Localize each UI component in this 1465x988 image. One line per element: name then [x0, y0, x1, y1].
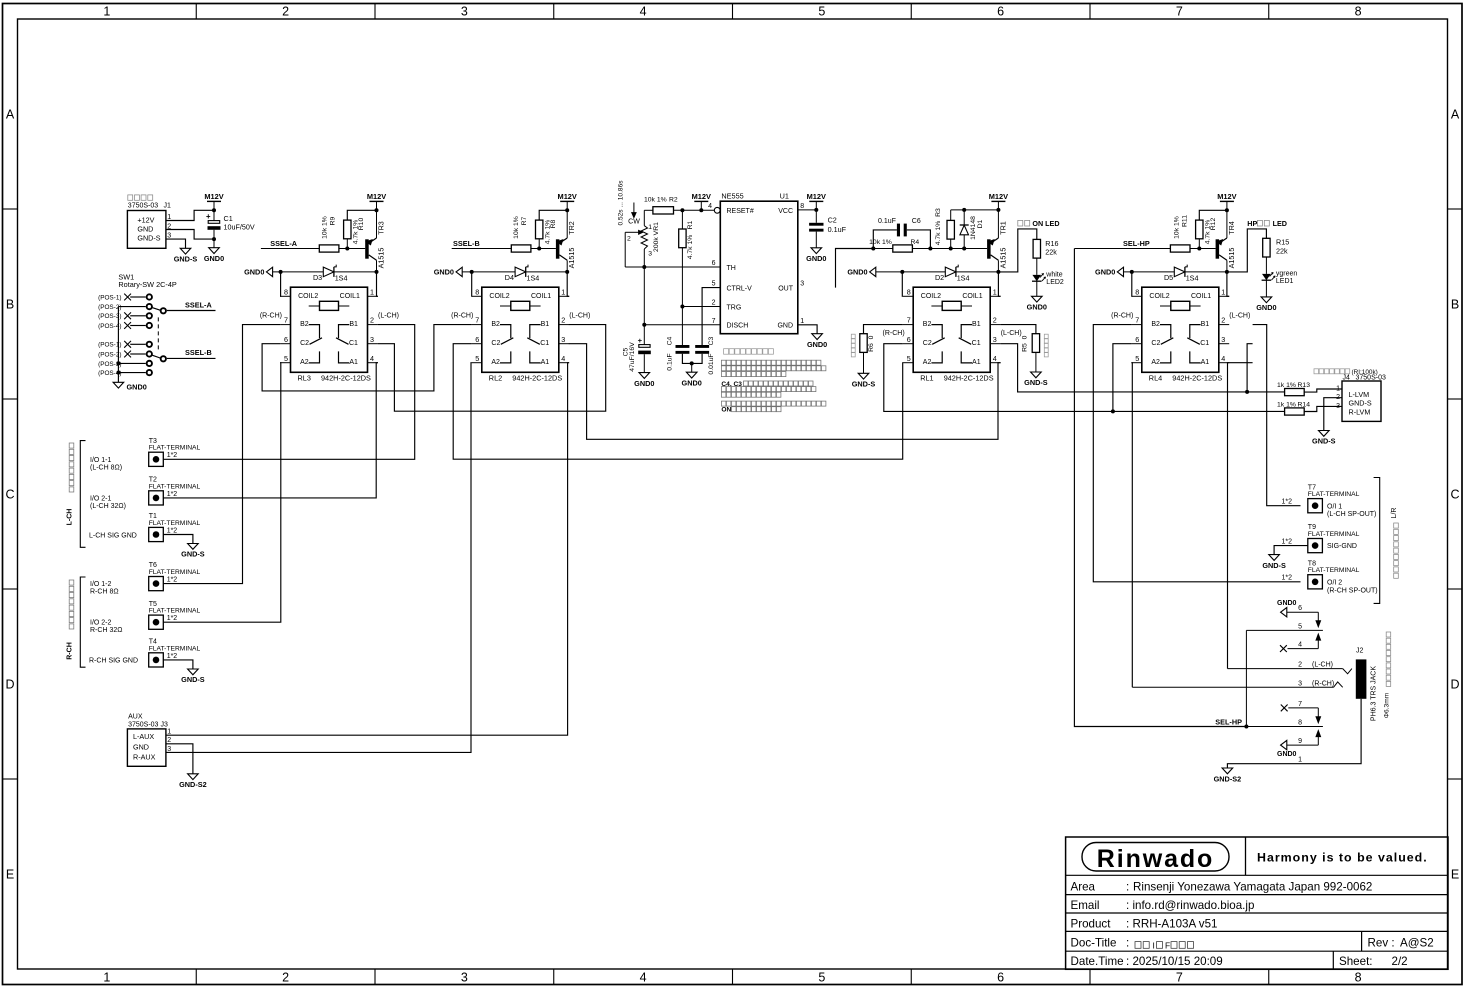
label L-CH 出力トランスより vertical	[67, 443, 74, 525]
svg-text:ON LED: ON LED	[1032, 219, 1059, 228]
svg-text:GND0: GND0	[244, 268, 264, 277]
doc-title japanese	[1135, 940, 1194, 950]
svg-text:FLAT-TERMINAL: FLAT-TERMINAL	[149, 483, 201, 490]
svg-text:R-CH 8Ω: R-CH 8Ω	[90, 589, 119, 596]
svg-text:D4: D4	[505, 273, 514, 282]
svg-text:7: 7	[712, 318, 716, 325]
svg-text:5: 5	[712, 281, 716, 288]
svg-text:U1: U1	[780, 192, 789, 201]
junction	[375, 208, 379, 212]
svg-text:10k 1%: 10k 1%	[513, 216, 520, 239]
CW arrow	[628, 203, 640, 226]
wire relay pin1 to transistor collector	[377, 272, 378, 296]
svg-text:COIL2: COIL2	[921, 293, 941, 300]
group bracket L-CH	[80, 441, 85, 548]
svg-text:1k 1%: 1k 1%	[1277, 382, 1296, 389]
SW1 common selectors	[153, 307, 167, 362]
svg-text:C2: C2	[923, 340, 932, 347]
svg-text:FLAT-TERMINAL: FLAT-TERMINAL	[149, 520, 201, 527]
wire GND pin to GND0	[798, 325, 817, 334]
svg-text:3: 3	[561, 335, 565, 344]
svg-text:8: 8	[907, 287, 911, 296]
svg-text:0.01uF: 0.01uF	[708, 353, 715, 374]
ground GND0	[807, 334, 827, 349]
junction	[345, 247, 349, 251]
svg-text:(L-CH): (L-CH)	[1001, 330, 1022, 337]
svg-text:J1: J1	[164, 203, 172, 210]
svg-text:R14: R14	[1298, 402, 1311, 409]
label O/I 2 (R-CH SP-OUT)	[1327, 579, 1378, 594]
svg-text:Doc-Title: Doc-Title	[1071, 937, 1117, 950]
junction	[565, 270, 569, 274]
svg-text:R2: R2	[669, 197, 678, 204]
no-connect X	[1281, 705, 1288, 712]
svg-text:Date.Time: Date.Time	[1071, 955, 1124, 968]
svg-text:A1: A1	[972, 359, 981, 366]
svg-text:TR2: TR2	[567, 221, 576, 235]
svg-text:B1: B1	[972, 321, 981, 328]
svg-text:I/O 2-2: I/O 2-2	[90, 620, 112, 627]
svg-text:ON: ON	[721, 407, 731, 414]
terminal T6 FLAT-TERMINAL	[149, 562, 201, 591]
label 出力ON LED	[1018, 219, 1060, 228]
wire base	[539, 248, 556, 250]
svg-text:R-LVM: R-LVM	[1349, 407, 1371, 416]
svg-text:A1515: A1515	[1227, 248, 1236, 269]
svg-text:SSEL-B: SSEL-B	[185, 348, 212, 357]
svg-text:1: 1	[167, 729, 171, 736]
svg-text:C4: C4	[667, 336, 674, 345]
ground GND0	[113, 382, 147, 391]
label I/O 1-2 R-CH 8ohm	[90, 581, 119, 596]
terminal T9 FLAT-TERMINAL	[1308, 524, 1360, 553]
svg-text:LED1: LED1	[1276, 278, 1294, 285]
speaker bracket	[1374, 478, 1380, 604]
svg-text:M12V: M12V	[204, 192, 223, 201]
svg-text:(L-CH 8Ω): (L-CH 8Ω)	[90, 464, 122, 471]
power flag M12V	[692, 192, 711, 211]
ground GND-S	[181, 669, 205, 684]
svg-text:B1: B1	[541, 321, 550, 328]
LED LED1	[1262, 271, 1298, 286]
ground GND0	[682, 372, 702, 387]
wire SEL-HP vertical	[1074, 249, 1246, 727]
svg-text:1*2: 1*2	[167, 527, 178, 534]
capacitor C6 0.1uF	[873, 218, 930, 248]
resistor R7 10k 1% series	[452, 245, 540, 252]
svg-text:2/2: 2/2	[1392, 955, 1408, 968]
svg-text:R1: R1	[687, 220, 694, 229]
wire LED1 to GND0	[1265, 280, 1267, 297]
wire SSEL-B stub from SW1	[167, 357, 216, 359]
svg-text:1: 1	[800, 318, 804, 325]
resistor R16 22k	[1033, 239, 1058, 275]
wire T4 to GND-S	[163, 660, 193, 669]
svg-text:0.52s ... 10.86s: 0.52s ... 10.86s	[618, 180, 625, 226]
svg-text:(R-CH): (R-CH)	[260, 312, 282, 319]
svg-text:0.1uF: 0.1uF	[878, 218, 896, 225]
junction	[1244, 725, 1248, 729]
svg-text:B2: B2	[300, 321, 309, 328]
svg-text:C2: C2	[828, 216, 837, 225]
wire M12V to pullup R10	[347, 210, 376, 220]
svg-text:22k: 22k	[1045, 248, 1057, 257]
resistor R15 22k	[1263, 238, 1289, 274]
svg-text:1S4: 1S4	[335, 274, 348, 283]
svg-text:10k 1%: 10k 1%	[321, 216, 328, 239]
svg-text:A1: A1	[349, 359, 358, 366]
terminal T4 FLAT-TERMINAL	[149, 639, 201, 668]
resistor R8 4.7k 1% vertical	[513, 216, 557, 248]
svg-text:ygreen: ygreen	[1276, 271, 1298, 278]
jack pin3 ring wire R-CH	[1132, 682, 1342, 687]
wire relay pin8 to diode line	[1130, 272, 1132, 296]
svg-text:5: 5	[907, 354, 911, 363]
svg-text:A1515: A1515	[567, 248, 576, 269]
svg-text:8: 8	[1355, 5, 1362, 19]
junction	[212, 208, 216, 212]
svg-text:A1515: A1515	[377, 248, 386, 269]
terminal T1 FLAT-TERMINAL	[149, 513, 201, 542]
svg-text:R12: R12	[1210, 218, 1217, 231]
svg-text:2: 2	[282, 5, 289, 19]
SW1 position wires deck1	[118, 297, 145, 326]
svg-text:7: 7	[1135, 316, 1139, 325]
svg-text:: info.rd@rinwado.bioa.jp: : info.rd@rinwado.bioa.jp	[1126, 899, 1254, 912]
svg-text:E: E	[6, 868, 14, 882]
svg-text:(R-CH): (R-CH)	[1111, 312, 1133, 319]
svg-text:A2: A2	[1151, 359, 1160, 366]
svg-text:+12V: +12V	[137, 216, 154, 225]
svg-text:M12V: M12V	[989, 192, 1008, 201]
power flag M12V	[807, 192, 826, 211]
jack switch arrow 6-5	[1316, 612, 1321, 627]
diode D5	[1164, 265, 1199, 283]
junction	[1197, 247, 1201, 251]
svg-text:AUX: AUX	[128, 714, 143, 721]
svg-text:C1: C1	[224, 214, 233, 223]
svg-text:6: 6	[997, 971, 1004, 985]
svg-text:CW: CW	[628, 218, 640, 225]
svg-text:(R-CH): (R-CH)	[451, 312, 473, 319]
svg-text:1S4: 1S4	[957, 274, 970, 283]
wire RL3 C2 to RL2 B2	[262, 325, 471, 391]
svg-text:Product: Product	[1071, 917, 1112, 930]
svg-text:FLAT-TERMINAL: FLAT-TERMINAL	[1308, 491, 1360, 498]
svg-text:(POS-1): (POS-1)	[98, 294, 121, 301]
svg-text:8: 8	[475, 287, 479, 296]
svg-text:COIL1: COIL1	[962, 293, 982, 300]
potentiometer VR1 200k	[625, 210, 660, 267]
no-connect X	[1280, 645, 1287, 652]
svg-text:2: 2	[993, 316, 997, 325]
label HP出力 LED	[1247, 219, 1287, 228]
svg-text:SSEL-A: SSEL-A	[270, 239, 297, 248]
wire RL4 C1 drop to R13 line	[1247, 344, 1253, 392]
svg-text:3: 3	[461, 971, 468, 985]
svg-text:8: 8	[1355, 971, 1362, 985]
net label GND0	[1095, 267, 1123, 276]
wire relay pin1 to transistor collector	[1227, 272, 1229, 296]
junction	[996, 208, 1000, 212]
label O/I 1 (L-CH SP-OUT)	[1327, 503, 1376, 518]
resistor R10 4.7k 1% vertical	[321, 216, 365, 248]
junction	[996, 270, 1000, 274]
wire SSEL-A stub from SW1	[167, 310, 216, 312]
svg-text:COIL2: COIL2	[1149, 293, 1169, 300]
junction	[470, 270, 474, 274]
wire T9 to GND-S	[1274, 546, 1308, 555]
svg-text:Email: Email	[1071, 899, 1100, 912]
wire RL1 C2 to R14 line	[884, 344, 1285, 412]
svg-text:C: C	[1450, 488, 1459, 502]
capacitor C3 0.01uF	[692, 336, 716, 374]
note text block 1	[721, 360, 826, 376]
svg-text:6: 6	[475, 335, 479, 344]
wire M12V rail to R3 D1	[951, 209, 999, 211]
resistor R11 10k 1% series	[1074, 245, 1199, 252]
svg-text:Rinsenji Yonezawa Yamagata Jap: Rinsenji Yonezawa Yamagata Japan 992-006…	[1133, 880, 1372, 893]
wire LED2 to GND0	[1036, 281, 1038, 296]
svg-text:1: 1	[103, 5, 110, 19]
svg-text:R16: R16	[1045, 239, 1058, 248]
svg-text:white: white	[1045, 272, 1062, 279]
svg-text:C2: C2	[491, 340, 500, 347]
svg-text:GND-S: GND-S	[174, 255, 198, 264]
junction	[1111, 409, 1115, 413]
svg-text:B2: B2	[491, 321, 500, 328]
wire diode line	[273, 271, 377, 273]
svg-text:M12V: M12V	[692, 192, 711, 201]
svg-text:B: B	[1451, 298, 1459, 312]
junction	[814, 208, 818, 212]
svg-text:M12V: M12V	[807, 192, 826, 201]
jack pin8 wire SEL-HP	[1246, 726, 1323, 728]
svg-text:1*2: 1*2	[1281, 539, 1292, 546]
svg-text:L/R: L/R	[1391, 508, 1398, 519]
wire net SSEL-A to R9	[260, 248, 262, 250]
resistor R6 0 not fitted	[851, 334, 875, 374]
svg-text:RL4: RL4	[1149, 374, 1162, 383]
svg-text:C1: C1	[1200, 340, 1209, 347]
junction	[680, 208, 684, 212]
svg-text:(R-CH): (R-CH)	[1312, 680, 1334, 687]
svg-text:A1: A1	[541, 359, 550, 366]
jack switch arrow 7-8	[1316, 708, 1321, 723]
net label GND0	[847, 267, 875, 276]
junction	[1225, 270, 1229, 274]
svg-text:GND-S: GND-S	[181, 675, 205, 684]
power flag M12V	[1217, 192, 1236, 211]
svg-text:I: I	[1153, 940, 1155, 950]
svg-text:(L-CH SP-OUT): (L-CH SP-OUT)	[1327, 511, 1376, 518]
junction	[690, 361, 694, 365]
wire TH line	[625, 266, 720, 268]
svg-text:4: 4	[1221, 354, 1225, 363]
svg-text:C2: C2	[1151, 340, 1160, 347]
svg-text:GND0: GND0	[1027, 303, 1047, 312]
svg-text:6: 6	[1298, 605, 1302, 612]
svg-text:GND0: GND0	[1277, 751, 1297, 758]
wire T6 to RL3 B2	[163, 325, 280, 584]
svg-text:RESET#: RESET#	[727, 208, 754, 215]
svg-text:942H-2C-12DS: 942H-2C-12DS	[512, 374, 562, 383]
svg-text:L-CH SIG GND: L-CH SIG GND	[89, 532, 137, 539]
svg-text:B2: B2	[923, 321, 932, 328]
svg-text:FLAT-TERMINAL: FLAT-TERMINAL	[1308, 567, 1360, 574]
svg-text:C1: C1	[972, 340, 981, 347]
svg-text:GND-S: GND-S	[1312, 437, 1336, 446]
svg-text:DISCH: DISCH	[727, 323, 749, 330]
svg-text:D1: D1	[977, 219, 984, 228]
svg-text:TRG: TRG	[727, 304, 742, 311]
wire D2 diode line	[876, 271, 999, 273]
terminal T3 FLAT-TERMINAL	[149, 438, 201, 467]
svg-text:3: 3	[167, 233, 171, 240]
label L/R speaker vertical	[1391, 508, 1398, 579]
svg-text:9: 9	[1298, 738, 1302, 745]
svg-text:I/O 1-2: I/O 1-2	[90, 581, 112, 588]
junction	[537, 247, 541, 251]
label 電源入力	[128, 195, 153, 200]
svg-text:R7: R7	[521, 216, 528, 225]
svg-text:0.1uF: 0.1uF	[667, 353, 674, 370]
svg-text:942H-2C-12DS: 942H-2C-12DS	[944, 374, 994, 383]
diode D3	[313, 265, 348, 283]
ground GND-S	[1262, 555, 1286, 570]
wire base	[1199, 248, 1215, 250]
capacitor C4 0.1uF	[667, 307, 692, 371]
junction	[279, 270, 283, 274]
ground GND-S2	[179, 774, 207, 789]
svg-text:Rotary-SW 2C-4P: Rotary-SW 2C-4P	[118, 280, 177, 289]
svg-text:D3: D3	[313, 273, 322, 282]
junction	[565, 208, 569, 212]
svg-text:B2: B2	[1151, 321, 1160, 328]
svg-text:GND0: GND0	[807, 340, 827, 349]
diode D2	[935, 265, 970, 283]
jack switch arrow 9-8	[1316, 730, 1321, 745]
junction	[1245, 390, 1249, 394]
svg-text:I/O 2-1: I/O 2-1	[90, 495, 112, 502]
wire TR1 to ON LED	[998, 229, 1036, 272]
jack pin6 GND0	[1277, 600, 1318, 617]
svg-text:1*2: 1*2	[1281, 499, 1292, 506]
svg-text:1: 1	[1298, 757, 1302, 764]
svg-text:GND-S2: GND-S2	[1214, 775, 1242, 784]
svg-text:J2: J2	[1356, 648, 1364, 655]
wire J3 pin2 GND to GND-S2	[166, 744, 193, 774]
svg-text:2: 2	[561, 316, 565, 325]
ground GND-S	[1024, 372, 1048, 387]
svg-text:TH: TH	[727, 265, 736, 272]
svg-text:6: 6	[907, 335, 911, 344]
svg-text:4: 4	[708, 203, 712, 210]
svg-text:R8: R8	[550, 219, 557, 228]
svg-text:GND0: GND0	[1256, 303, 1276, 312]
terminal T7 FLAT-TERMINAL	[1308, 484, 1360, 513]
svg-text:GND-S: GND-S	[1024, 378, 1048, 387]
wire RL2 A2 to J3 R-AUX	[166, 363, 472, 753]
wire relay pin8 to diode line	[901, 272, 904, 296]
svg-text:COIL2: COIL2	[298, 293, 318, 300]
svg-text:8: 8	[1298, 720, 1302, 727]
capacitor C5 47uF/16V	[622, 325, 651, 373]
svg-text:SSEL-A: SSEL-A	[185, 300, 212, 309]
svg-text::: :	[1126, 880, 1129, 893]
svg-text:2: 2	[1221, 316, 1225, 325]
svg-text:1: 1	[561, 287, 565, 296]
svg-text:GND0: GND0	[1277, 600, 1297, 607]
svg-text:1*2: 1*2	[167, 491, 178, 498]
jack pin numbers	[1298, 605, 1334, 764]
svg-text:NE555: NE555	[721, 192, 743, 201]
wire RL4 A1 to jack L-CH	[1228, 363, 1253, 669]
svg-text:6: 6	[997, 5, 1004, 19]
jack switch arrow 4-5	[1316, 634, 1321, 649]
svg-text:M12V: M12V	[558, 192, 577, 201]
junction	[900, 270, 904, 274]
svg-text:3750S-03: 3750S-03	[128, 203, 158, 210]
svg-text:R10: R10	[358, 218, 365, 231]
wire J1 pin1 to M12V	[166, 210, 214, 220]
wire RL4 B2 to T8	[1093, 325, 1300, 582]
svg-text:942H-2C-12DS: 942H-2C-12DS	[321, 374, 371, 383]
power flag M12V	[558, 192, 577, 211]
svg-text:GND0: GND0	[847, 268, 867, 277]
label level meter gray	[1314, 369, 1378, 376]
svg-text:L-CH: L-CH	[67, 509, 74, 526]
svg-text:TR1: TR1	[998, 221, 1007, 235]
svg-text:5: 5	[818, 5, 825, 19]
wire RL2 A1 to J3 L-AUX	[166, 363, 569, 736]
svg-text:942H-2C-12DS: 942H-2C-12DS	[1172, 374, 1222, 383]
svg-text:7: 7	[1298, 701, 1302, 708]
Rinwado logo	[1082, 843, 1229, 874]
ground GND0	[634, 373, 654, 388]
svg-text:C2: C2	[300, 340, 309, 347]
note C3 not fitted	[724, 349, 774, 355]
diode D1 1N4148	[960, 210, 984, 249]
svg-text:2: 2	[370, 316, 374, 325]
ground GND0	[806, 248, 826, 263]
no-connect X	[124, 312, 131, 319]
svg-text:1: 1	[370, 287, 374, 296]
wire J1 pin3 to GND-S	[166, 239, 186, 248]
ground GND-S	[174, 248, 198, 263]
resistor R2 10k 1%	[644, 197, 714, 215]
no-connect X	[124, 294, 131, 301]
svg-text:+: +	[638, 336, 643, 345]
svg-text:1: 1	[1221, 287, 1225, 296]
svg-text:(R-CH SP-OUT): (R-CH SP-OUT)	[1327, 587, 1378, 594]
resistor R3 4.7k 1%	[935, 208, 954, 249]
svg-text:CTRL-V: CTRL-V	[727, 285, 753, 292]
svg-text:3: 3	[1298, 680, 1302, 687]
svg-text:OUT: OUT	[778, 285, 794, 292]
svg-text:M12V: M12V	[367, 192, 386, 201]
capacitor C2 0.1uF	[809, 210, 846, 248]
wire relay pin8 to diode line	[470, 272, 472, 296]
svg-text:3: 3	[461, 5, 468, 19]
svg-text:B1: B1	[1201, 321, 1210, 328]
wire VCC to M12V	[798, 209, 817, 211]
relay RL3 942H-2C-12DS	[280, 287, 378, 382]
svg-text:A1: A1	[1201, 359, 1210, 366]
svg-text:7: 7	[907, 316, 911, 325]
wire RL1 pin7 to R6	[864, 325, 903, 334]
svg-text:8: 8	[1135, 287, 1139, 296]
